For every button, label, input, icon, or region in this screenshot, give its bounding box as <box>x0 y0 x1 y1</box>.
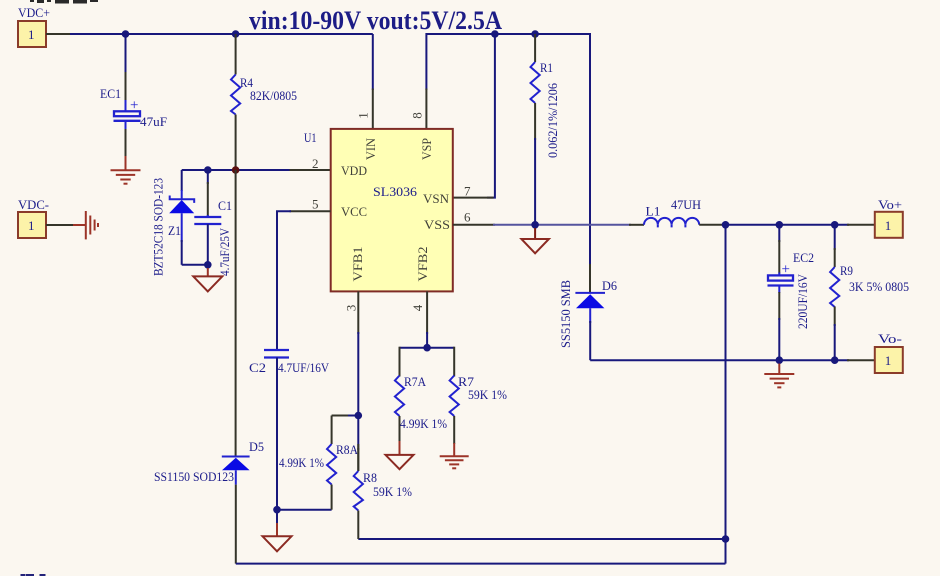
node: C2 bottom junction <box>273 506 281 514</box>
wire: C2 to R8A rail <box>277 509 332 511</box>
ground: earth below R7 <box>440 443 469 468</box>
node: EC2 bottom junction <box>776 356 784 364</box>
svg-text:SL3036: SL3036 <box>373 184 418 199</box>
resistor R8A <box>279 416 359 510</box>
svg-text:47UH: 47UH <box>671 197 701 212</box>
pin 5 stub (VCC) <box>290 210 331 212</box>
svg-text:L1: L1 <box>646 204 661 219</box>
svg-text:R1: R1 <box>540 60 553 75</box>
svg-text:VCC: VCC <box>341 204 367 219</box>
svg-text:VDD: VDD <box>341 163 367 178</box>
svg-text:1: 1 <box>28 218 35 233</box>
svg-text:EC1: EC1 <box>100 86 121 101</box>
svg-text:4.99K 1%: 4.99K 1% <box>400 416 447 431</box>
svg-text:VDC-: VDC- <box>18 197 49 212</box>
wire: R7A/R7 top rail <box>400 347 455 349</box>
wire: Z1-C1 bottom rail <box>182 264 208 266</box>
capacitor EC1 <box>100 34 167 157</box>
svg-text:BZT52C18 SOD-123: BZT52C18 SOD-123 <box>152 178 166 276</box>
wire: output bottom rail <box>590 356 875 364</box>
svg-text:VSS: VSS <box>424 217 450 232</box>
node: bus/EC1 junction <box>122 30 130 38</box>
svg-text:D6: D6 <box>602 278 617 293</box>
svg-text:7: 7 <box>464 184 471 199</box>
svg-text:1: 1 <box>356 112 371 119</box>
wire: bottom bus <box>236 563 726 565</box>
ground: earth below EC2 <box>764 364 794 388</box>
svg-text:47uF: 47uF <box>140 114 167 129</box>
node: Z1/C1 bottom junction <box>204 261 212 269</box>
svg-text:59K 1%: 59K 1% <box>468 387 507 402</box>
node: VSS/R1 junction <box>531 221 539 229</box>
svg-text:4: 4 <box>410 304 425 311</box>
inductor L1 <box>629 197 726 227</box>
cut-off text bottom-left <box>21 574 46 576</box>
svg-text:VSP: VSP <box>419 138 434 160</box>
capacitor EC2 <box>768 225 815 360</box>
pin 1 stub (VIN) <box>372 89 374 130</box>
capacitor C2 <box>249 350 330 510</box>
svg-text:4.7uF/25V: 4.7uF/25V <box>218 228 232 276</box>
svg-text:2: 2 <box>312 156 319 171</box>
wire: VCC branch <box>277 211 331 350</box>
svg-text:R8A: R8A <box>336 442 359 457</box>
port Vo- <box>875 331 903 373</box>
svg-text:C2: C2 <box>249 360 266 375</box>
wire: top bus VDC+ to VIN <box>70 33 373 35</box>
pin 4 stub (VFB2) <box>426 291 428 334</box>
ground: earth below EC1 <box>111 156 141 184</box>
pin 8 stub (VSP) <box>425 89 427 130</box>
svg-text:1: 1 <box>28 27 35 42</box>
capacitor C1 <box>194 170 232 276</box>
svg-text:VDC+: VDC+ <box>18 5 50 20</box>
port Vo+ <box>875 197 903 238</box>
svg-text:6: 6 <box>464 210 471 225</box>
diode D5 <box>154 170 264 564</box>
svg-text:SS1150 SOD123: SS1150 SOD123 <box>154 469 234 484</box>
ground: triangle below C1 <box>193 268 222 291</box>
svg-text:Vo-: Vo- <box>878 331 902 346</box>
node: EC2 top junction <box>776 221 784 229</box>
svg-text:D5: D5 <box>249 439 264 454</box>
svg-text:VFB2: VFB2 <box>415 247 430 282</box>
node: R9 bottom junction <box>831 356 839 364</box>
node: R4/D5 junction (dark red) <box>232 166 240 174</box>
zener diode Z1 <box>152 170 195 276</box>
node: bus/R1 junction <box>531 30 539 38</box>
IC U1 SL3036 <box>304 112 471 311</box>
node: R8A junction <box>355 412 363 420</box>
svg-text:VSN: VSN <box>423 191 450 206</box>
svg-text:VFB1: VFB1 <box>350 247 365 282</box>
wire: VDC+ pin stub <box>46 33 70 35</box>
svg-text:EC2: EC2 <box>793 250 814 265</box>
ground: triangle below VSS <box>521 228 549 253</box>
svg-text:4.99K 1%: 4.99K 1% <box>279 455 324 470</box>
node: R9 top junction <box>831 221 839 229</box>
svg-text:82K/0805: 82K/0805 <box>250 88 297 103</box>
svg-text:220UF/16V: 220UF/16V <box>796 274 810 329</box>
svg-text:0.062/1%/1206: 0.062/1%/1206 <box>546 83 560 158</box>
svg-text:C1: C1 <box>218 198 232 213</box>
node: R7/R7A junction <box>423 344 431 352</box>
node: feedback/bottom junction <box>722 535 730 543</box>
wire: VDC- stub <box>46 224 74 226</box>
svg-text:vin:10-90V vout:5V/2.5A: vin:10-90V vout:5V/2.5A <box>249 6 502 35</box>
wire: R8A top rail <box>332 415 350 417</box>
wire: top bus VSP segment <box>426 34 590 266</box>
resistor R1 <box>531 34 561 225</box>
ground: triangle below R7A <box>386 441 414 469</box>
svg-text:5: 5 <box>312 197 319 212</box>
node: bus/R4 junction <box>232 30 240 38</box>
svg-text:Z1: Z1 <box>168 223 181 238</box>
svg-text:8: 8 <box>410 112 425 119</box>
wire: VIN drop <box>372 34 374 90</box>
svg-text:VIN: VIN <box>363 137 378 160</box>
svg-text:1: 1 <box>885 218 892 233</box>
resistor R7A <box>395 374 447 442</box>
svg-text:3K 5% 0805: 3K 5% 0805 <box>849 279 909 294</box>
wire: R8 bottom to feedback <box>358 538 725 540</box>
node: bus/VSN junction <box>491 30 499 38</box>
svg-text:U1: U1 <box>304 130 317 145</box>
pin 7 stub (VSN) <box>453 197 494 199</box>
svg-text:R8: R8 <box>363 470 377 485</box>
wire: VFB1 vertical <box>357 332 359 450</box>
port VDC+ <box>18 5 50 47</box>
svg-text:4.7UF/16V: 4.7UF/16V <box>278 360 330 375</box>
wire: feedback vertical <box>725 225 727 564</box>
svg-text:59K 1%: 59K 1% <box>373 484 412 499</box>
pin 6 stub (VSS) <box>453 224 495 226</box>
wire: VFB2 vertical <box>426 332 428 348</box>
resistor R8 <box>354 444 412 539</box>
svg-text:1: 1 <box>885 353 892 368</box>
wire: VDD rail <box>182 169 291 171</box>
diode D6 <box>559 264 617 360</box>
wire: VSN vertical <box>487 34 495 198</box>
svg-text:R7A: R7A <box>404 374 427 389</box>
ground: triangle below C2 <box>263 510 292 552</box>
resistor R7 <box>450 374 508 444</box>
ground: VDC- bar ground <box>73 211 98 239</box>
pin 2 stub (VDD) <box>290 169 331 171</box>
resistor R9 <box>830 225 909 360</box>
wire: VSS net <box>453 221 631 229</box>
resistor R4 <box>231 34 297 170</box>
svg-text:SS5150 SMB: SS5150 SMB <box>559 280 573 348</box>
svg-text:Vo+: Vo+ <box>878 197 902 212</box>
wire: output top rail <box>722 221 875 229</box>
svg-text:3: 3 <box>344 305 359 312</box>
port VDC- <box>18 197 49 238</box>
node: C1 top junction <box>204 166 212 174</box>
cut-off text top-left <box>30 0 98 4</box>
svg-text:R9: R9 <box>840 263 853 278</box>
pin 3 stub (VFB1) <box>357 291 359 334</box>
node: L1/feedback junction <box>722 221 730 229</box>
